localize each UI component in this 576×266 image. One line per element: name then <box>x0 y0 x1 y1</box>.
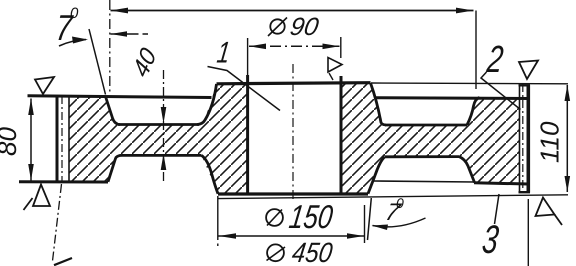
bore left edge <box>246 75 249 194</box>
svg-text:110: 110 <box>535 121 565 163</box>
right strip bottom edge <box>519 191 531 193</box>
angle 7deg top-left label <box>54 5 79 48</box>
angle 7deg bottom arc with arrow <box>372 218 426 230</box>
wheel axis centerline <box>292 64 294 202</box>
svg-text:2: 2 <box>484 39 505 81</box>
callout 3 leader <box>495 194 500 224</box>
dimension 110 top extension line <box>371 82 568 85</box>
top dimension left extension dash-dot vertical <box>109 0 111 94</box>
callout 2 label <box>484 39 505 81</box>
upper-right recess bottom <box>385 124 467 127</box>
angle 7deg bottom slanted reference <box>368 198 372 240</box>
hub upper-left wall <box>197 84 217 125</box>
dimension Ø90 right extension <box>340 37 342 58</box>
svg-text:40: 40 <box>128 43 162 82</box>
hub lower-left wall <box>202 155 219 193</box>
upper-right recess outer wall <box>467 98 480 126</box>
svg-text:90: 90 <box>288 13 321 41</box>
surface mark triangle top-right <box>519 61 538 80</box>
callout 3 label <box>480 218 501 262</box>
right strip top edge <box>519 84 531 86</box>
overall top dimension line <box>111 8 474 14</box>
dimension Ø150 left extension <box>217 196 219 246</box>
dimension 40 label <box>128 43 162 82</box>
lower-left recess top <box>122 154 202 157</box>
dimension 80 line with arrows <box>28 99 34 181</box>
surface mark triangle bottom-right with tail <box>536 198 563 226</box>
hub bottom edge <box>218 192 368 195</box>
svg-text:1: 1 <box>215 37 232 70</box>
top dimension right extension line <box>475 11 477 90</box>
wheel section left half hatched region <box>69 85 248 194</box>
hub upper-right wall <box>371 83 387 125</box>
dimension Ø90 label <box>268 13 321 41</box>
wheel section right half hatched region <box>341 83 520 194</box>
bottom face outline right rim <box>474 183 528 184</box>
right end face <box>526 85 530 193</box>
surface mark triangle bottom-left with tail <box>24 185 51 211</box>
svg-text:450: 450 <box>290 237 335 266</box>
angle 7deg top-left arc arrow <box>59 37 88 47</box>
dimension 110 line with arrows <box>565 85 571 192</box>
callout 1 label <box>215 37 232 70</box>
dimension 80 label <box>0 127 22 156</box>
dimension Ø150 line with arrows <box>219 233 365 239</box>
svg-text:3: 3 <box>480 218 501 262</box>
dimension Ø90 left extension <box>247 38 249 75</box>
dimension 110 bottom extension line <box>218 195 568 199</box>
lower-right recess top <box>385 155 460 158</box>
dimension Ø450 label <box>267 237 335 266</box>
lower-right recess outer wall <box>459 157 475 183</box>
right strip centerline <box>522 84 524 192</box>
dimension 110 label <box>535 121 565 163</box>
callout 2 leader <box>481 72 521 110</box>
dimension Ø150 label <box>266 198 335 235</box>
surface mark triangle top-left <box>35 77 54 94</box>
dimension Ø90 line <box>249 44 340 50</box>
bottom face outline left (with extension) <box>19 180 108 183</box>
right strip inner edge <box>519 86 521 193</box>
dimension Ø450 left extension slanted <box>53 184 73 265</box>
machining mark triangle on bore <box>328 58 342 81</box>
top face outline right (rim top edge) <box>374 96 528 100</box>
angle 7deg bottom label <box>383 195 405 226</box>
bottom face outline right thin background edge <box>374 181 476 182</box>
bore right edge <box>340 76 343 194</box>
angle 7deg slanted reference line <box>89 29 106 95</box>
dimension 40 line with arrows <box>161 70 167 182</box>
dimension Ø450 right extension <box>527 199 529 266</box>
angle 7deg horizontal stub with arrow <box>111 31 149 37</box>
left strip centerline <box>61 96 63 183</box>
svg-text:0: 0 <box>70 5 79 22</box>
svg-text:80: 80 <box>0 127 22 156</box>
dimension Ø150 right extension <box>364 205 366 243</box>
svg-text:150: 150 <box>287 198 336 235</box>
callout 1 leader <box>208 67 281 111</box>
left abrasive strip inner edge <box>68 97 70 183</box>
top face outline left (rim top edge with extension) <box>28 96 212 98</box>
hub top edge <box>217 83 371 84</box>
upper-left recess outer wall <box>106 97 121 125</box>
lower-left recess outer wall <box>108 155 122 181</box>
upper-left recess bottom <box>118 123 199 126</box>
svg-text:0: 0 <box>396 195 404 211</box>
left end face of rim <box>56 96 59 183</box>
hub lower-right wall <box>368 157 385 194</box>
